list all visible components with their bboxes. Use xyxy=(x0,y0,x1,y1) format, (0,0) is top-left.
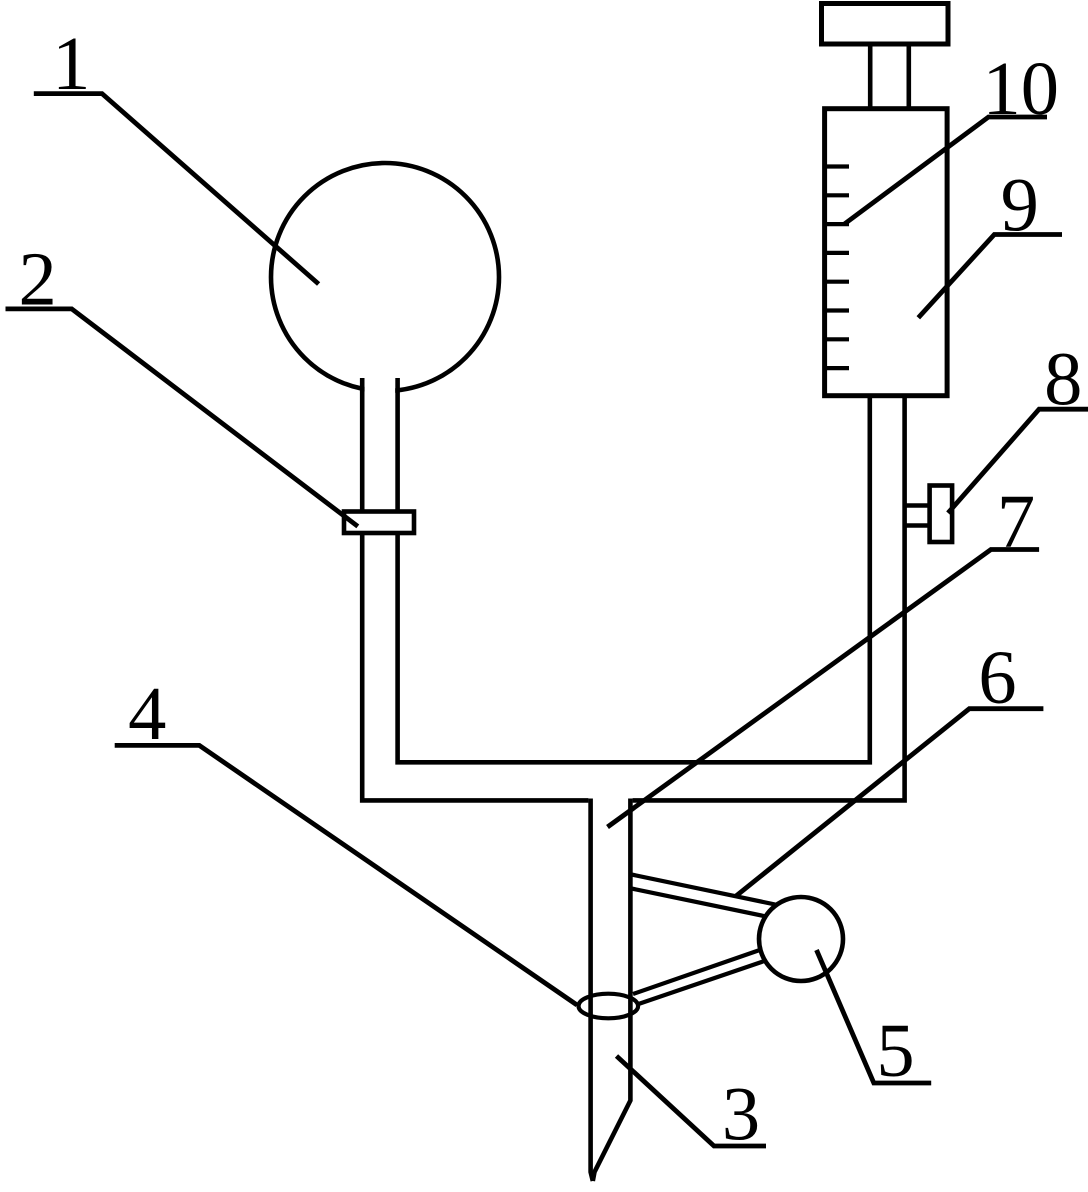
leader line 2 xyxy=(6,309,358,527)
stopcock 2 xyxy=(344,512,414,534)
svg-text:10: 10 xyxy=(982,46,1059,131)
syringe plunger handle xyxy=(822,4,949,45)
leader line 4 xyxy=(115,745,577,1005)
leader line 10 xyxy=(844,117,1047,224)
syringe barrel 9 xyxy=(825,109,948,396)
upper side tube 6 xyxy=(630,874,792,921)
svg-text:8: 8 xyxy=(1044,337,1082,422)
lower side tube xyxy=(633,943,782,1005)
svg-text:9: 9 xyxy=(1001,162,1039,247)
svg-text:1: 1 xyxy=(52,21,90,106)
right tube outer wall / wire xyxy=(633,395,905,800)
left tube inner wall / wire xyxy=(398,378,870,762)
svg-text:4: 4 xyxy=(128,671,166,756)
graduation ticks 10 xyxy=(827,167,850,369)
balloon reservoir 1 xyxy=(271,163,499,391)
center tube right wall + bevel 3 xyxy=(593,799,631,1182)
tube opening mask into balloon xyxy=(365,376,396,396)
leader line 6 xyxy=(736,709,1043,896)
center tube left wall (down to blade tip) xyxy=(591,799,593,1182)
tube mouth ellipse 4 xyxy=(579,994,639,1019)
leader line 3 xyxy=(617,1056,767,1146)
side port body 8 xyxy=(930,486,953,543)
svg-text:2: 2 xyxy=(18,236,56,321)
leader line 9 xyxy=(918,235,1062,318)
svg-text:6: 6 xyxy=(978,635,1016,720)
svg-text:5: 5 xyxy=(876,1008,914,1093)
leader line 5 xyxy=(817,950,932,1083)
leader line 8 xyxy=(948,409,1088,513)
leader line 1 xyxy=(34,94,319,284)
side port stub 8 xyxy=(905,506,930,526)
svg-text:7: 7 xyxy=(997,479,1035,564)
syringe plunger rod xyxy=(870,44,909,109)
left tube outer wall / wire xyxy=(362,378,588,800)
svg-text:3: 3 xyxy=(722,1072,760,1157)
pressure bulb 5 xyxy=(759,897,843,981)
leader line 7 xyxy=(608,550,1040,828)
